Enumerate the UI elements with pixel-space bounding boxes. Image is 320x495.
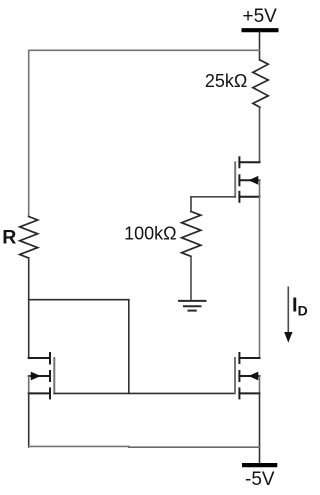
- M3 channel source segment: [238, 388, 240, 398]
- wire: 100k resistor to ground: [190, 256, 192, 300]
- wire: M1 source down to M3 drain: [259, 197, 261, 358]
- M3 channel drain segment: [238, 353, 240, 363]
- resistor 25k: [253, 60, 268, 107]
- svg-text:ID: ID: [292, 294, 308, 318]
- M2 body arrow: [31, 372, 41, 381]
- wire: drain node across to gate line (diode connection, horizontal): [29, 299, 129, 301]
- M3 body arrow: [248, 372, 258, 381]
- M3 body-to-source tie: [259, 376, 261, 393]
- M1 drain stub: [239, 161, 259, 163]
- wire: M2 source down to bottom rail: [28, 393, 30, 447]
- M3 body stub: [239, 375, 259, 377]
- wire: M1 gate to 100k node: [191, 196, 235, 198]
- M1 channel drain segment: [238, 157, 240, 167]
- wire: top horizontal rail to left branch: [29, 49, 260, 51]
- M3 source stub: [239, 392, 259, 394]
- current arrow ID head: [284, 332, 292, 343]
- M1 body arrow: [248, 176, 258, 185]
- M3 gate bar: [234, 358, 236, 393]
- M2 channel drain segment: [49, 353, 51, 364]
- M2 channel body segment: [49, 371, 51, 381]
- M1 channel body segment: [238, 175, 240, 185]
- svg-text:R: R: [2, 226, 16, 248]
- M2 gate bar: [53, 358, 55, 393]
- M2 source stub: [29, 392, 50, 394]
- wire: R to M2 drain node: [28, 258, 30, 358]
- wire: gate node down to 100k resistor: [190, 197, 192, 212]
- M1 gate bar: [234, 162, 236, 197]
- M1 body-to-source tie: [259, 180, 261, 197]
- svg-text:100kΩ: 100kΩ: [124, 224, 177, 244]
- svg-text:+5V: +5V: [243, 6, 278, 27]
- transistor M1 (top NMOS, body tied to source): [235, 157, 259, 202]
- svg-text:-5V: -5V: [245, 469, 275, 490]
- M2 drain stub: [29, 357, 50, 359]
- wire: left branch down to resistor R: [28, 50, 30, 216]
- M2 body-to-source tie: [28, 376, 30, 393]
- resistor 100k: [182, 212, 201, 257]
- +5V supply bar: [242, 28, 279, 32]
- wire: bottom rail: [29, 445, 129, 447]
- M2 body stub: [29, 375, 50, 377]
- wire: +5V bar down to top node: [259, 32, 261, 60]
- M2 channel source segment: [49, 388, 51, 398]
- wire: M3 source down to -5V bar: [259, 393, 261, 463]
- transistor M2 (bottom-left NMOS, mirrored): [29, 353, 55, 398]
- wire: gate line between M2 and M3: [54, 392, 235, 394]
- ground: [178, 301, 207, 311]
- M3 drain stub: [239, 357, 259, 359]
- current arrow ID line: [287, 287, 289, 333]
- wire: bottom rail right part: [129, 446, 260, 448]
- M1 body stub: [239, 179, 259, 181]
- M3 channel body segment: [238, 371, 240, 381]
- wire: diode connection vertical drop to gate line: [128, 300, 130, 394]
- resistor R: [20, 217, 38, 259]
- -5V supply bar: [242, 463, 277, 467]
- transistor M3 (bottom-right NMOS): [235, 353, 260, 398]
- M1 source stub: [239, 196, 259, 198]
- svg-text:25kΩ: 25kΩ: [205, 71, 247, 91]
- wire: 25k resistor to M1 drain: [250, 107, 260, 162]
- M1 channel source segment: [238, 192, 240, 202]
